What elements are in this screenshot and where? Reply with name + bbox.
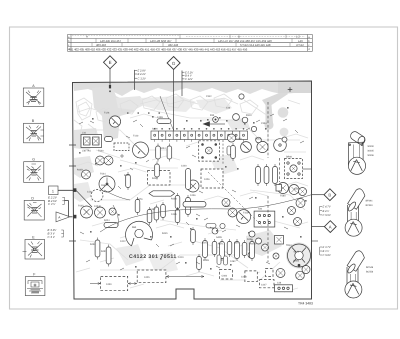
svg-text:B: B [328,192,331,197]
svg-text:TR40: TR40 [286,244,292,247]
svg-text:C407: C407 [150,208,156,211]
svg-text:S40B: S40B [216,236,222,239]
svg-text:C4040: C4040 [94,205,101,208]
svg-text:BC548: BC548 [366,266,374,269]
svg-text:A: A [86,35,88,39]
svg-text:R426: R426 [124,174,130,177]
svg-text:R479: R479 [137,198,143,201]
svg-text:G: G [32,158,35,162]
svg-text:R438: R438 [171,198,177,201]
svg-text:SA20: SA20 [152,128,158,131]
svg-text:C46: C46 [277,282,282,285]
svg-text:C140: C140 [87,191,93,194]
svg-text:R434: R434 [160,147,166,150]
svg-text:BC558: BC558 [366,270,374,273]
svg-text:C 5.5V: C 5.5V [323,214,331,217]
svg-text:C40: C40 [226,107,231,110]
svg-text:C400: C400 [106,283,112,286]
svg-text:TS40: TS40 [255,138,261,141]
svg-text:G: G [172,61,176,66]
svg-text:TS45: TS45 [225,205,231,208]
svg-text:5=512+514 443 445 448: 5=512+514 443 445 448 [240,43,271,47]
svg-text:BF494: BF494 [366,199,373,202]
svg-text:C 3.2V: C 3.2V [138,77,146,80]
svg-text:TS20: TS20 [98,150,104,153]
svg-text:R456: R456 [247,238,253,241]
svg-text:R80: R80 [132,226,137,229]
svg-text:C304: C304 [261,122,267,125]
svg-text:BC549: BC549 [366,204,374,207]
svg-text:R471: R471 [218,243,224,246]
svg-text:B 4 V: B 4 V [323,210,330,213]
svg-text:A: A [329,224,332,229]
svg-text:C425: C425 [144,276,150,279]
svg-text:C412: C412 [120,240,126,243]
svg-text:R460: R460 [294,260,300,263]
svg-text:TS60: TS60 [280,195,286,198]
svg-text:R424: R424 [104,219,110,222]
svg-text:R440: R440 [152,177,158,180]
svg-text:30405: 30405 [367,150,374,153]
svg-text:R43B: R43B [203,259,209,262]
svg-text:C462: C462 [230,260,236,263]
svg-text:T126: T126 [104,112,110,115]
svg-text:C445: C445 [171,213,177,216]
svg-text:E 4.7V: E 4.7V [323,205,331,208]
svg-text:1: 1 [52,190,54,194]
svg-text:R30: R30 [210,114,215,117]
svg-text:C426: C426 [204,178,210,181]
svg-text:C428: C428 [241,276,247,279]
svg-text:C440: C440 [181,165,187,168]
svg-text:R42B: R42B [77,169,83,172]
svg-text:D: D [31,196,34,200]
svg-text:R470: R470 [202,242,208,245]
svg-text:R472: R472 [234,242,240,245]
svg-text:S40: S40 [258,208,263,211]
svg-text:C 4 V: C 4 V [48,202,56,206]
svg-text:C 12V: C 12V [185,78,193,81]
svg-text:E 3.7V: E 3.7V [323,246,331,249]
svg-text:C40B: C40B [157,116,163,119]
svg-text:432 443: 432 443 [168,43,179,47]
svg-text:R450: R450 [90,243,96,246]
svg-text:T150: T150 [243,212,249,215]
svg-text:C 5.8V: C 5.8V [323,254,331,257]
svg-text:4=512: 4=512 [296,43,304,47]
svg-text:TS25: TS25 [78,205,84,208]
svg-text:403 410: 403 410 [96,43,107,47]
svg-text:C436: C436 [190,194,196,197]
svg-text:R451: R451 [101,250,107,253]
svg-text:E: E [109,60,112,65]
svg-text:TS24: TS24 [100,173,106,176]
svg-text:30406: 30406 [367,154,374,157]
svg-text:C 3 V: C 3 V [48,235,56,239]
svg-text:DR60: DR60 [286,156,293,159]
svg-text:401 402 405 408 410 406 420 43: 401 402 405 408 410 406 420 432 433 435 … [69,48,248,52]
svg-text:B 2.2V: B 2.2V [138,73,146,76]
svg-text:TR4 3483: TR4 3483 [298,302,313,306]
svg-text:C410: C410 [178,256,184,259]
svg-text:R310: R310 [246,114,252,117]
svg-text:30400: 30400 [367,145,374,148]
svg-text:C447: C447 [261,284,267,287]
svg-text:R445: R445 [162,232,168,235]
svg-text:L30 TR1: L30 TR1 [82,150,91,153]
svg-text:E 2.8V: E 2.8V [138,69,146,72]
svg-text:T140: T140 [133,135,139,138]
svg-text:C460: C460 [222,275,228,278]
svg-text:C150: C150 [236,138,242,141]
svg-text:C66: C66 [101,184,106,187]
svg-text:SA-B: SA-B [294,251,300,254]
svg-text:C4122 301 70511: C4122 301 70511 [129,254,177,260]
svg-text:C342: C342 [206,95,212,98]
svg-text:B 3 V: B 3 V [323,250,330,253]
svg-text:R473: R473 [250,243,256,246]
svg-text:C344: C344 [294,188,300,191]
